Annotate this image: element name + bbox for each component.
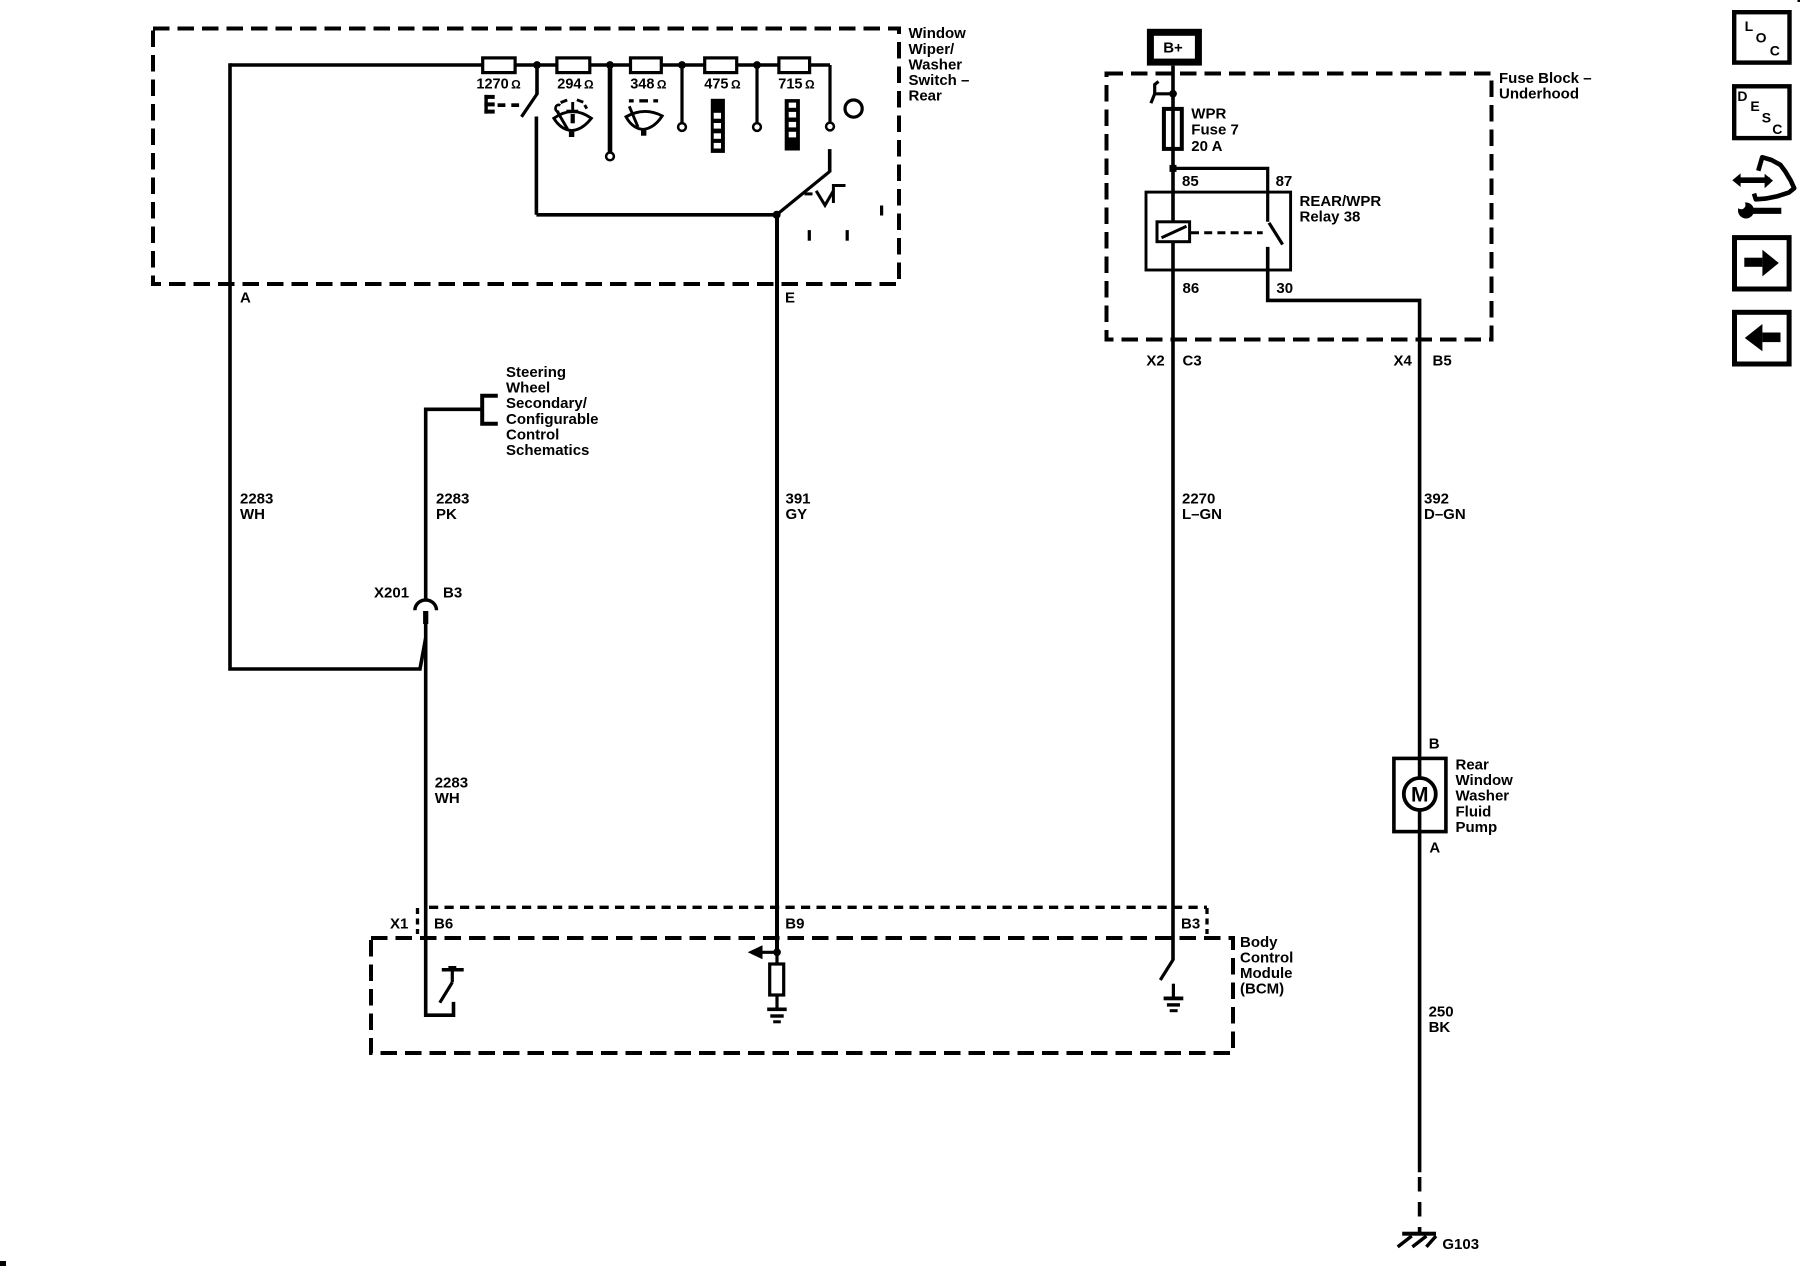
svg-text:E: E xyxy=(785,290,795,307)
contact circle under J2 xyxy=(606,153,614,161)
wiper icon xyxy=(626,106,662,129)
wire: 391 GY from pin E down to BCM B9 xyxy=(775,215,779,953)
svg-text:Washer: Washer xyxy=(1456,788,1510,805)
wire: to relay pin 87 xyxy=(1173,168,1268,221)
battery terminal B+ xyxy=(1150,32,1198,62)
label: REAR/WPR Relay 38 xyxy=(1300,193,1382,226)
svg-text:Control: Control xyxy=(506,426,559,443)
svg-text:Window: Window xyxy=(1456,772,1514,789)
relay coil xyxy=(1157,222,1190,242)
svg-text:2283: 2283 xyxy=(436,490,469,507)
junction dot at B9 xyxy=(773,948,781,956)
svg-text:X201: X201 xyxy=(374,585,409,602)
svg-text:348Ω: 348Ω xyxy=(630,77,667,93)
back arrow button xyxy=(1735,312,1790,364)
svg-text:PK: PK xyxy=(436,506,457,523)
svg-text:B: B xyxy=(1429,736,1440,753)
svg-text:E: E xyxy=(1750,98,1759,114)
pump motor circle xyxy=(1404,778,1436,810)
wiring repair icon xyxy=(1732,157,1794,218)
wire: 2283 WH to BCM pin B6 xyxy=(426,611,454,1015)
svg-text:Switch –: Switch – xyxy=(909,72,970,89)
svg-text:85: 85 xyxy=(1182,173,1199,190)
svg-text:WH: WH xyxy=(240,506,265,523)
svg-text:Rear: Rear xyxy=(1456,757,1490,774)
svg-text:GY: GY xyxy=(786,506,808,523)
svg-text:S: S xyxy=(1762,109,1771,125)
wire: thick tap drop from J2 xyxy=(608,65,613,152)
svg-text:Relay 38: Relay 38 xyxy=(1300,208,1361,225)
contact circle at bus end drop xyxy=(826,123,834,131)
resistor R 475 ohm xyxy=(705,58,737,73)
momentary return symbol xyxy=(805,186,846,206)
svg-text:A: A xyxy=(1429,840,1440,857)
wire: 2270 L-GN into BCM B3 xyxy=(1171,168,1175,960)
chassis ground G103 xyxy=(1398,1232,1436,1247)
wire: resistor ladder bus xyxy=(230,63,830,67)
pump enclosure xyxy=(1394,758,1446,831)
junction dot below B+ xyxy=(1169,90,1177,98)
mechanical link dash c xyxy=(846,230,849,241)
connector X1 left tick xyxy=(416,908,419,934)
connector X1 right tick xyxy=(1205,908,1208,934)
switch position E: fixed stub from J1 xyxy=(535,65,539,94)
wire: lower contact of E switch down to common rail xyxy=(535,117,539,215)
relay linkage dashed xyxy=(1191,231,1263,234)
svg-text:B5: B5 xyxy=(1433,353,1452,370)
svg-text:250: 250 xyxy=(1429,1004,1454,1021)
svg-text:Fluid: Fluid xyxy=(1456,803,1492,820)
svg-text:G103: G103 xyxy=(1442,1236,1479,1253)
svg-text:2270: 2270 xyxy=(1182,490,1215,507)
wire: common rail of switch xyxy=(536,213,776,217)
resistor R 1270 ohm xyxy=(483,58,515,73)
svg-text:X1: X1 xyxy=(390,915,408,932)
rotary blade fixed stub xyxy=(828,149,832,172)
dashed enclosure: Fuse Block - Underhood xyxy=(1107,74,1492,340)
resistor R 715 ohm xyxy=(779,58,810,73)
svg-text:2283: 2283 xyxy=(435,775,468,792)
svg-text:392: 392 xyxy=(1424,490,1449,507)
label: Window Wiper/Washer Switch - Rear xyxy=(909,25,970,104)
contact circle under J4 xyxy=(753,123,761,131)
svg-text:Rear: Rear xyxy=(909,88,943,105)
svg-text:294Ω: 294Ω xyxy=(557,77,594,93)
svg-text:715Ω: 715Ω xyxy=(778,77,815,93)
junction dot at relay feed xyxy=(1170,165,1177,172)
dashed enclosure: Window Wiper/Washer Switch - Rear xyxy=(153,29,899,285)
svg-text:REAR/WPR: REAR/WPR xyxy=(1300,193,1382,210)
svg-text:Window: Window xyxy=(909,25,967,42)
bus tap symbol xyxy=(1151,82,1173,104)
BCM internal resistor at B9 xyxy=(775,952,778,964)
svg-text:L: L xyxy=(1745,18,1754,34)
svg-text:Steering: Steering xyxy=(506,364,566,381)
label: Rear Window Washer Fluid Pump xyxy=(1456,757,1514,836)
connector stub below arc xyxy=(423,611,428,624)
switch blade at E position xyxy=(522,93,538,116)
junction dot J3 xyxy=(678,61,686,69)
svg-text:L–GN: L–GN xyxy=(1182,506,1222,523)
svg-text:Wiper/: Wiper/ xyxy=(909,41,956,58)
mechanical link dash a xyxy=(880,206,883,216)
forward arrow button xyxy=(1735,238,1790,289)
svg-text:Configurable: Configurable xyxy=(506,411,599,428)
LOC button xyxy=(1734,12,1789,62)
svg-text:Fuse 7: Fuse 7 xyxy=(1191,122,1239,139)
fuse WPR Fuse 7 20A xyxy=(1164,109,1182,149)
svg-text:(BCM): (BCM) xyxy=(1240,981,1284,998)
delay bar icon (475) xyxy=(711,99,725,153)
washer spray icon xyxy=(554,100,592,131)
svg-text:Underhood: Underhood xyxy=(1499,85,1579,102)
junction dot J1 xyxy=(533,61,541,69)
svg-text:D–GN: D–GN xyxy=(1424,506,1466,523)
svg-text:X4: X4 xyxy=(1394,353,1413,370)
svg-text:1270Ω: 1270Ω xyxy=(476,77,521,93)
BCM internal switch at B3 xyxy=(1160,960,1173,981)
resistor R 294 ohm xyxy=(557,58,590,73)
svg-text:20 A: 20 A xyxy=(1191,138,1222,155)
dashed enclosure: Body Control Module xyxy=(371,938,1233,1053)
svg-text:Pump: Pump xyxy=(1456,819,1498,836)
svg-text:A: A xyxy=(240,290,251,307)
relay blade xyxy=(1269,223,1283,245)
svg-text:B9: B9 xyxy=(785,915,804,932)
label: Steering Wheel Secondary/Configurable Control Schematics xyxy=(506,364,599,459)
svg-text:B3: B3 xyxy=(443,585,462,602)
wire: tap drop from J3 xyxy=(680,65,683,123)
page corner mark top-right xyxy=(1798,0,1800,2)
svg-text:C: C xyxy=(1772,121,1782,137)
DESC button xyxy=(1734,86,1789,138)
relay coil slash xyxy=(1162,226,1187,237)
svg-text:Secondary/: Secondary/ xyxy=(506,395,588,412)
delay bar icon (715) xyxy=(785,99,800,150)
resistor R 348 ohm xyxy=(631,58,662,73)
reference bracket xyxy=(482,396,498,424)
label: WPR Fuse 7 20 A xyxy=(1191,105,1239,155)
svg-text:391: 391 xyxy=(786,490,811,507)
actuator dashed link xyxy=(498,103,519,107)
svg-text:Wheel: Wheel xyxy=(506,380,550,397)
svg-text:B+: B+ xyxy=(1163,40,1183,57)
svg-text:86: 86 xyxy=(1183,280,1200,297)
relay enclosure REAR/WPR Relay 38 xyxy=(1146,192,1291,270)
wire: 2283 WH from pin A xyxy=(230,63,426,669)
svg-text:X2: X2 xyxy=(1146,353,1164,370)
connector X1 dotted line xyxy=(429,906,1207,909)
label: Body Control Module (BCM) xyxy=(1240,934,1293,998)
svg-text:30: 30 xyxy=(1276,280,1293,297)
wire: tap drop from J4 xyxy=(755,65,758,123)
BCM B9 pull-down arrow xyxy=(748,945,777,959)
wire: B+ feed down through fuse xyxy=(1171,66,1175,169)
ground symbol inside BCM at B3 xyxy=(1164,984,1184,1013)
svg-text:475Ω: 475Ω xyxy=(704,77,741,93)
svg-text:WPR: WPR xyxy=(1191,105,1226,122)
label: Fuse Block - Underhood xyxy=(1499,70,1592,103)
svg-text:O: O xyxy=(1756,30,1767,46)
junction dot at blade pivot xyxy=(773,211,781,219)
wire through pump xyxy=(1418,757,1422,834)
svg-text:Control: Control xyxy=(1240,949,1293,966)
wire: relay pin 30 to X4 xyxy=(1268,247,1420,757)
rotary selector blade xyxy=(777,172,830,215)
wire: 250 BK dashed tail xyxy=(1418,1177,1422,1233)
mechanical link dash b xyxy=(808,230,811,241)
svg-text:Fuse Block –: Fuse Block – xyxy=(1499,70,1592,87)
svg-text:Washer: Washer xyxy=(909,56,963,73)
BCM internal switch at B6 xyxy=(440,966,464,1003)
svg-text:Schematics: Schematics xyxy=(506,442,589,459)
svg-text:WH: WH xyxy=(435,790,460,807)
svg-text:C3: C3 xyxy=(1183,353,1202,370)
wire: 2283 PK from bracket to connector X201 xyxy=(426,409,483,599)
svg-text:B3: B3 xyxy=(1181,915,1200,932)
junction dot J4 xyxy=(753,61,761,69)
svg-text:D: D xyxy=(1737,88,1747,104)
svg-text:C: C xyxy=(1770,42,1780,58)
off position circle O xyxy=(845,100,862,117)
svg-text:87: 87 xyxy=(1276,173,1293,190)
wire: tap drop from bus end xyxy=(828,65,831,122)
ground symbol inside BCM at B9 xyxy=(767,1008,787,1024)
svg-text:Body: Body xyxy=(1240,934,1278,951)
actuator letter E xyxy=(484,95,494,114)
contact circle under J3 xyxy=(678,123,686,131)
svg-text:M: M xyxy=(1411,784,1429,807)
svg-text:B6: B6 xyxy=(434,915,453,932)
svg-text:BK: BK xyxy=(1429,1019,1451,1036)
junction dot J2 xyxy=(606,61,614,69)
page corner mark bottom-left xyxy=(0,1261,6,1266)
wire: 250 BK from pump xyxy=(1418,833,1422,1172)
svg-text:2283: 2283 xyxy=(240,490,273,507)
svg-text:Module: Module xyxy=(1240,965,1293,982)
connector X201 arc xyxy=(415,600,437,610)
